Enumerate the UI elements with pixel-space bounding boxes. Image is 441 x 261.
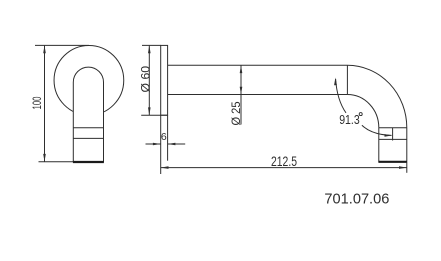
angle leader lower curve xyxy=(362,125,392,135)
front view tube (U shape) xyxy=(73,67,103,162)
side view tube top line xyxy=(168,64,348,66)
dim 212.5 dimension line xyxy=(161,167,407,169)
dim D60 bottom extension line xyxy=(141,114,167,116)
dim 6 left arrow xyxy=(153,143,161,146)
side view tube bottom line xyxy=(168,94,348,96)
dim D60 top arrow xyxy=(148,45,151,53)
dim 212.5 left arrow xyxy=(161,166,169,169)
dim 100 top arrow xyxy=(43,45,46,53)
svg-text:Ø 25: Ø 25 xyxy=(229,101,243,125)
front view flange circle xyxy=(54,45,124,115)
dim D25 dimension line xyxy=(240,65,242,124)
dim 6 right arrow xyxy=(168,143,176,146)
angle leader upper curve xyxy=(336,79,346,113)
outlet axis tick xyxy=(392,128,394,141)
flange left edge extension line xyxy=(160,115,162,174)
side view outlet lower joint line xyxy=(379,138,407,140)
dim 6 left tail line xyxy=(146,143,161,145)
side view outlet right edge xyxy=(406,128,408,162)
dim 100 top extension line xyxy=(35,44,89,46)
front view tube joint line upper xyxy=(73,127,103,129)
side view outlet bottom edge (thick) xyxy=(378,161,407,163)
side view bend tangent line xyxy=(346,65,348,94)
front view tube bottom edge (thick) xyxy=(73,161,104,163)
svg-text:701.07.06: 701.07.06 xyxy=(324,191,389,207)
svg-text:91.3: 91.3 xyxy=(339,112,360,127)
dim D60 bottom arrow xyxy=(148,107,151,115)
dim D60 dimension line xyxy=(148,46,150,115)
dim 212.5 right arrow xyxy=(399,166,407,169)
side view outlet top joint line xyxy=(379,127,407,129)
front view tube joint line lower xyxy=(73,137,103,139)
flange right edge extension line xyxy=(167,115,169,161)
degree symbol of 91.3 xyxy=(359,113,362,116)
dim D25 down arrow xyxy=(240,87,243,95)
side view outlet left edge xyxy=(378,128,380,162)
side view bend outer arc xyxy=(347,65,406,127)
dim D25 up arrow xyxy=(240,65,243,73)
dim 100 dimension line xyxy=(44,46,46,162)
dim 100 bottom arrow xyxy=(43,154,46,162)
angle leader lower arrow xyxy=(385,134,393,137)
dim 212.5 right extension line xyxy=(406,162,408,173)
side view flange rectangle xyxy=(161,45,168,115)
angle leader upper arrow xyxy=(334,78,337,86)
svg-text:100: 100 xyxy=(30,96,44,109)
svg-text:212.5: 212.5 xyxy=(271,153,297,169)
side view bend inner arc xyxy=(347,95,378,128)
dim 6 right tail line xyxy=(168,143,186,145)
dim D60 top extension line xyxy=(142,44,161,46)
svg-text:Ø 60: Ø 60 xyxy=(139,66,153,93)
dim 100 bottom extension line xyxy=(39,161,74,163)
svg-text:6: 6 xyxy=(161,131,167,143)
